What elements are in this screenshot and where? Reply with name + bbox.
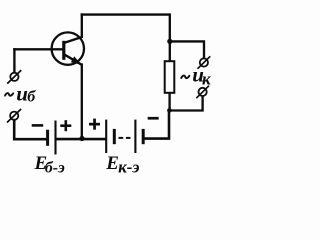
svg-text:б-э: б-э (45, 159, 65, 176)
svg-text:Е: Е (105, 153, 119, 174)
svg-text:б: б (27, 88, 36, 105)
svg-text:к-э: к-э (118, 158, 139, 177)
svg-text:u: u (16, 81, 28, 105)
svg-text:к: к (202, 70, 211, 89)
